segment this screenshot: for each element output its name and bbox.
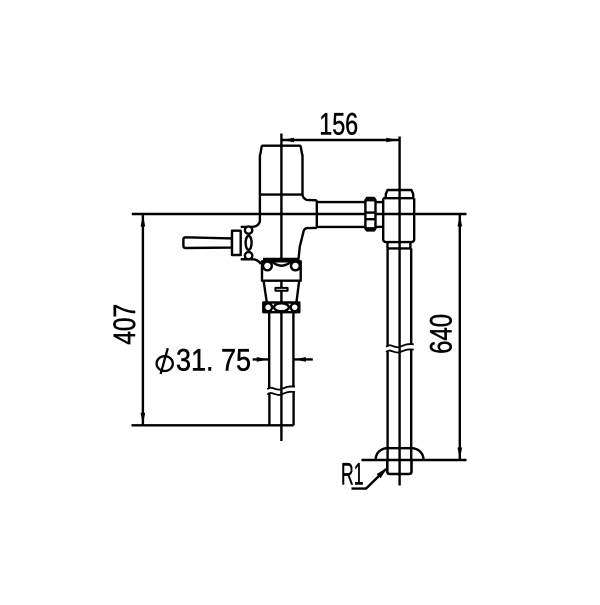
svg-text:31. 75: 31. 75 bbox=[176, 342, 251, 377]
svg-text:640: 640 bbox=[424, 314, 459, 354]
svg-text:407: 407 bbox=[107, 304, 142, 345]
svg-text:R1: R1 bbox=[341, 456, 364, 491]
svg-text:156: 156 bbox=[319, 106, 358, 141]
